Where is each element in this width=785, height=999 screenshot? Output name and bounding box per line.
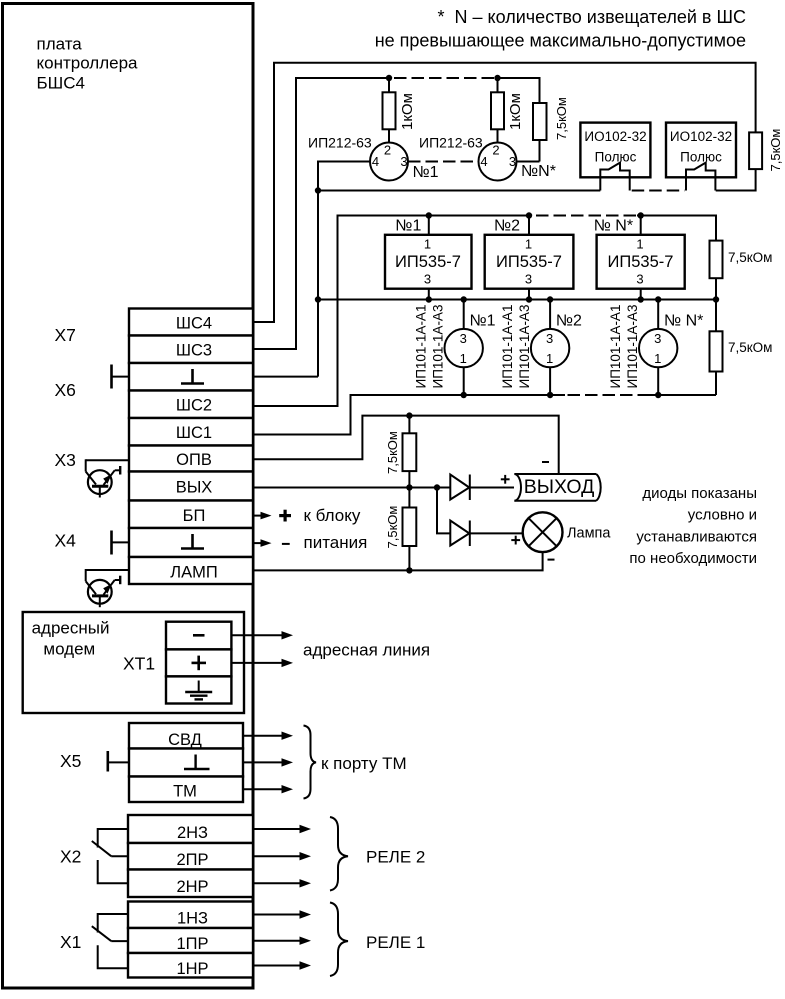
node: tap resistor 1 [386,75,392,81]
wire ШС4 loop to top [253,63,756,322]
node ИП101 no.N pin3 [655,296,661,302]
arrow ТМ [243,788,283,790]
svg-text:Х1: Х1 [60,932,81,952]
arrow 1НР [253,965,301,967]
svg-text:ШС4: ШС4 [176,315,212,333]
svg-text:№ N*: № N* [594,217,633,234]
wire ground terminal to rail [253,376,318,378]
svg-text:ИП535-7: ИП535-7 [608,253,674,271]
heat detector ИП101 no.1 [414,300,496,396]
arrow 2ПР [253,855,301,857]
earth terminal [185,681,212,700]
transistor VT2 (open collector, ЛАМП output) [86,569,129,607]
resistor 7,5кОм far right (ШС4 loop end-of-line) [749,132,762,169]
arrow ground minus [253,542,263,544]
svg-text:Полюс: Полюс [595,150,637,165]
svg-text:СВД: СВД [168,731,202,749]
svg-text:2ПР: 2ПР [176,851,208,869]
svg-text:3: 3 [400,154,407,169]
svg-text:Лампа: Лампа [567,526,611,542]
node ВЫХ/resistor [406,484,412,490]
node ЛАМП/resistor [406,567,412,573]
node ВЫХ/diode branch [434,484,440,490]
svg-text:№2: №2 [556,313,582,330]
svg-text:ИП101-1А-А3: ИП101-1А-А3 [517,305,532,389]
diode branch wire [437,488,450,534]
svg-text:3: 3 [424,272,431,287]
адресный модем box [23,612,244,713]
svg-text:ЛАМП: ЛАМП [170,564,217,582]
svg-text:7,5кОм: 7,5кОм [768,129,783,172]
svg-text:Х5: Х5 [60,751,81,771]
svg-text:2НЗ: 2НЗ [177,824,208,842]
resistor 7,5кОм (ОПВ-ВЫХ) [408,416,410,434]
svg-text:* N – количество извещателей: * N – количество извещателей в ШС [438,7,746,27]
node ИП535 no.2 pin1 [526,212,532,218]
svg-text:1кОм: 1кОм [507,93,524,130]
svg-text:1НР: 1НР [176,960,208,978]
arrow БП plus [253,515,263,517]
ground symbol row 9 [181,534,204,549]
svg-text:к блоку: к блоку [304,506,361,525]
svg-text:1: 1 [654,351,661,366]
svg-text:№2: №2 [494,217,520,234]
wire ЛАМП line [253,552,543,570]
wire minus to address line [231,634,283,636]
node ИП101 no.2 pin3 [547,296,553,302]
svg-text:3: 3 [525,272,532,287]
ИП101 bottom rail to ШС1 [650,394,716,396]
ground symbol X5 block [184,755,210,770]
svg-text:3: 3 [654,331,661,346]
svg-text:3: 3 [546,331,553,346]
svg-text:7,5кОм: 7,5кОм [385,431,400,474]
node ИП101 no.1 pin3 [461,296,467,302]
svg-text:№1: №1 [413,164,439,181]
svg-text:№N*: №N* [521,163,556,180]
svg-text:4: 4 [372,154,379,169]
relay 2 terminal block [128,815,253,897]
arrow 1ПР [253,940,301,942]
svg-text:плата: плата [37,35,83,54]
svg-text:по необходимости: по необходимости [629,550,757,567]
svg-text:ИП101-1А-А1: ИП101-1А-А1 [500,305,515,389]
svg-text:№ N*: № N* [664,313,703,330]
relay 1 terminal block [128,902,253,979]
resistor 7,5кОм (ШС2 end-of-line) [710,241,723,279]
smoke detector ИП212-63 no.1 [370,143,408,181]
node ground/ИП535 return [315,296,321,302]
node: tap resistor 2 [494,75,500,81]
arrow 2НР [253,882,301,884]
svg-text:1кОм: 1кОм [399,93,416,130]
resistor 7,5кОм (ШС1 end-of-line) [710,331,723,371]
ИО102-32 no.1 NC contact [600,163,629,191]
node ОПВ/resistor [406,412,412,418]
svg-text:ШС2: ШС2 [176,397,212,415]
svg-text:устанавливаются: устанавливаются [636,529,757,546]
svg-text:ХТ1: ХТ1 [123,654,155,674]
svg-text:адресный: адресный [32,619,110,638]
svg-text:7,5кОм: 7,5кОм [385,506,400,549]
svg-text:адресная линия: адресная линия [303,641,430,660]
svg-text:Х4: Х4 [55,531,77,551]
transistor VT1 (open collector, ВЫХ output) [86,459,129,497]
svg-text:ШС1: ШС1 [176,424,212,442]
svg-text:7,5кОм: 7,5кОм [728,340,772,355]
svg-text:№1: №1 [395,217,421,234]
wire ШС2 to flame detector line [253,216,530,407]
svg-text:ВЫХОД: ВЫХОД [524,476,595,498]
svg-text:2: 2 [492,143,499,158]
X4 stub [112,531,130,555]
svg-text:Х7: Х7 [55,325,76,345]
svg-text:№1: №1 [470,313,496,330]
X6 stub [112,365,130,389]
svg-text:ИП101-1А-А1: ИП101-1А-А1 [608,305,623,389]
node ИП101 no.2 bottom [547,392,553,398]
diode VD1 [450,475,514,501]
svg-text:7,5кОм: 7,5кОм [554,97,569,140]
svg-text:1: 1 [546,351,553,366]
X5 stub [108,751,129,772]
svg-text:Полюс: Полюс [680,150,722,165]
node ИП535 no.1 pin3 [426,296,432,302]
resistor R2 1кОм [497,78,499,92]
svg-text:1ПР: 1ПР [176,935,208,953]
dashed wire det1 pin3 to det2 pin4 [408,161,479,163]
svg-text:1: 1 [636,237,643,252]
svg-text:условно и: условно и [688,507,757,524]
ИО102-32 no.2 NC contact [686,163,715,191]
svg-text:1: 1 [460,351,467,366]
node ИП101 no.1 bottom [461,392,467,398]
heat detector ИП101 no.N [608,300,703,396]
arrow ground [243,761,283,763]
dashed wire between taps [394,77,494,79]
svg-text:ТМ: ТМ [173,783,197,801]
resistor 7,5кОм (ВЫХ-ЛАМП) [408,488,410,508]
svg-text:ИО102-32: ИО102-32 [584,129,646,144]
minus label at ВЫХОД [542,461,549,463]
arrow 1НЗ [253,914,301,916]
node ИП101 no.N bottom [655,392,661,398]
node right end of mid rail [713,296,719,302]
svg-text:ИП535-7: ИП535-7 [395,253,461,271]
svg-text:Х6: Х6 [55,380,76,400]
node ИП535 no.2 pin3 [526,296,532,302]
svg-text:1: 1 [424,237,431,252]
X5 terminal block СВД/гnd/ТМ [129,723,243,802]
wire tap2 to 7,5кОм resistor [498,78,540,103]
brace РЕЛЕ 2 [330,817,348,891]
svg-text:3: 3 [636,272,643,287]
svg-text:ИП101-1А-А3: ИП101-1А-А3 [431,305,446,389]
svg-text:БП: БП [183,507,206,525]
arrow 2НЗ [253,828,301,830]
wire ОПВ to ВЫХОД minus [253,416,559,474]
svg-text:контроллера: контроллера [37,54,139,73]
svg-text:не превышающее максимально-доп: не превышающее максимально-допустимое [375,31,746,51]
minus terminal [193,634,205,637]
resistor R1 1кОм [388,78,390,92]
wire ШС3 to detector line [253,78,389,349]
svg-text:к порту ТМ: к порту ТМ [321,754,407,773]
svg-text:РЕЛЕ 1: РЕЛЕ 1 [366,933,425,952]
minus label below lamp [548,559,555,561]
heat detector ИП101 no.2 [500,300,582,396]
plus label at lamp [511,536,520,545]
svg-text:4: 4 [480,154,487,169]
svg-text:РЕЛЕ 2: РЕЛЕ 2 [366,848,425,867]
svg-text:ВЫХ: ВЫХ [176,479,213,497]
svg-text:3: 3 [509,154,516,169]
node ИП535 no.N pin3 [638,296,644,302]
wire plus to address line [231,662,283,664]
terminal block rows ШС4..ЛАМП [129,309,253,585]
svg-text:1НЗ: 1НЗ [177,910,208,928]
diode VD2 [450,521,522,547]
svg-text:ОПВ: ОПВ [176,451,212,469]
svg-text:ИО102-32: ИО102-32 [670,129,732,144]
smoke detector ИП212-63 no.N [479,143,517,181]
svg-text:БШС4: БШС4 [37,74,85,93]
svg-text:3: 3 [460,331,467,346]
svg-text:питания: питания [304,533,368,552]
plus label at ВЫХОД [501,475,510,484]
wire ВЫХ line [253,487,450,489]
svg-text:Х2: Х2 [60,847,81,867]
flame detector ИП535-7 no.1 [385,216,472,300]
svg-text:7,5кОм: 7,5кОм [728,250,772,265]
controller board outline БШС4 [3,4,254,989]
ИП212 return rail [318,190,600,192]
brace РЕЛЕ 1 [330,903,348,977]
arrow СВД [243,735,283,737]
svg-text:модем: модем [43,640,95,659]
XT1 terminal block [166,622,231,704]
svg-text:ИП535-7: ИП535-7 [496,253,562,271]
svg-text:ИП101-1А-А3: ИП101-1А-А3 [625,305,640,389]
svg-text:ШС3: ШС3 [176,342,212,360]
lamp [523,512,563,552]
svg-text:1: 1 [525,237,532,252]
flame detector ИП535-7 no.2 [485,216,574,300]
brace к порту ТМ [304,726,317,799]
relay contact X2 [92,829,129,883]
mid ground rail [318,299,716,301]
resistor R3 7,5кОм (end of ШС3 branch) [533,103,547,140]
node ИП535 no.N pin1 [638,212,644,218]
plus terminal [192,656,207,671]
wire pin4 det1 to ground rail [318,162,370,377]
ВЫХОД siren [514,474,600,501]
svg-text:2: 2 [384,143,391,158]
node ground/ИП212 return [315,187,321,193]
svg-text:диоды показаны: диоды показаны [642,485,757,502]
security contact ИО102-32 no.1 [580,123,650,178]
svg-text:ИП212-63: ИП212-63 [419,135,483,151]
node ИП535 no.1 pin1 [426,212,432,218]
relay contact X1 [92,914,129,968]
flame detector ИП535-7 no.N [594,216,685,300]
svg-text:2НР: 2НР [176,878,208,896]
svg-text:Х3: Х3 [55,450,76,470]
ground symbol row 3 [181,369,204,384]
svg-text:ИП212-63: ИП212-63 [308,135,372,151]
svg-text:ИП101-1А-А1: ИП101-1А-А1 [414,305,429,389]
security contact ИО102-32 no.2 [666,123,736,178]
